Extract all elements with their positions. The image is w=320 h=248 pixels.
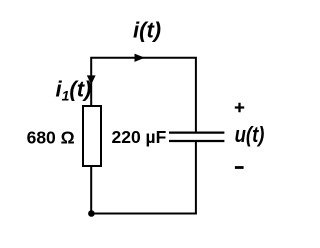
svg-text:680 Ω: 680 Ω [27, 128, 75, 148]
svg-text:u(t): u(t) [235, 122, 265, 147]
svg-text:220 µF: 220 µF [112, 127, 167, 147]
svg-text:i1(t): i1(t) [56, 76, 92, 103]
svg-text:i(t): i(t) [133, 17, 161, 42]
